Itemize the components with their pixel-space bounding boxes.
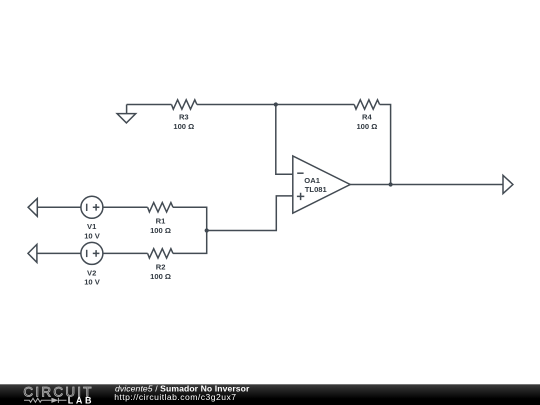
- wire V2 to R2: [103, 252, 148, 254]
- wire R1 to node C: [173, 207, 207, 230]
- CircuitLab logo: [23, 384, 94, 405]
- wire R4 down to node B: [380, 105, 391, 185]
- svg-text:100 Ω: 100 Ω: [150, 272, 171, 281]
- svg-text:10 V: 10 V: [84, 232, 101, 241]
- wire node A down to op-amp inverting input: [276, 105, 293, 175]
- voltage source V2: [81, 242, 103, 264]
- output terminal flag: [503, 175, 513, 193]
- wire V1 to R1: [103, 206, 148, 208]
- wire node C to op-amp non-inverting input: [207, 196, 293, 231]
- svg-text:R3: R3: [179, 112, 189, 121]
- svg-text:OA1: OA1: [304, 176, 320, 185]
- ground: [117, 105, 136, 123]
- wire op-amp output to output terminal: [350, 184, 503, 186]
- wire R3 to node A to R4: [197, 104, 354, 106]
- resistor R3: [172, 100, 197, 109]
- junction node B: [389, 182, 393, 186]
- svg-text:100 Ω: 100 Ω: [150, 226, 171, 235]
- resistor R1: [148, 203, 173, 212]
- svg-text:TL081: TL081: [305, 185, 328, 194]
- wire input terminal to V2: [37, 252, 81, 254]
- svg-text:R4: R4: [362, 112, 372, 121]
- input terminal flag (V2 row): [28, 244, 37, 262]
- wire input terminal to V1: [37, 206, 81, 208]
- svg-text:V2: V2: [87, 269, 96, 278]
- resistor R2: [148, 249, 173, 258]
- input terminal flag (V1 row): [28, 199, 37, 217]
- svg-text:http://circuitlab.com/c3g2ux7: http://circuitlab.com/c3g2ux7: [114, 392, 236, 402]
- resistor R4: [354, 100, 379, 109]
- svg-text:10 V: 10 V: [84, 277, 101, 286]
- junction node C: [205, 228, 209, 232]
- svg-text:R2: R2: [156, 262, 166, 271]
- svg-text:V1: V1: [87, 222, 97, 231]
- svg-text:LAB: LAB: [68, 395, 94, 405]
- voltage source V1: [81, 196, 103, 218]
- wire R2 up to node C: [173, 231, 207, 254]
- svg-text:R1: R1: [156, 216, 166, 225]
- op-amp OA1: [293, 156, 350, 213]
- svg-text:100 Ω: 100 Ω: [173, 122, 194, 131]
- wire ground to R3: [127, 104, 172, 106]
- svg-text:100 Ω: 100 Ω: [356, 122, 377, 131]
- junction node A: [274, 102, 278, 106]
